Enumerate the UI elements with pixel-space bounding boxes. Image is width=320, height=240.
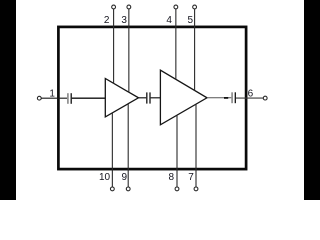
pin 7 stem wire [195, 104, 197, 187]
wire C3 to pin 6 [236, 97, 263, 99]
capacitor C1 left plate [67, 93, 69, 104]
amplifier A1 [105, 79, 138, 117]
pin 5 terminal circle [193, 5, 197, 9]
pin 8 terminal circle [175, 187, 179, 191]
svg-text:7: 7 [188, 172, 194, 183]
pin 10 stem wire [111, 113, 113, 187]
pin 4 terminal circle [174, 5, 178, 9]
capacitor C2 right plate [149, 92, 151, 103]
pin 4 stem wire [175, 9, 177, 80]
pin 2 stem wire [113, 9, 115, 84]
svg-text:9: 9 [122, 172, 128, 183]
wire A2 apex to C3 [207, 97, 231, 99]
pin 9 stem wire [127, 104, 129, 187]
svg-text:6: 6 [248, 89, 254, 100]
capacitor C3 right plate [234, 92, 236, 103]
pin 7 terminal circle [194, 187, 198, 191]
pin 3 terminal circle [127, 5, 131, 9]
svg-text:3: 3 [121, 15, 127, 26]
capacitor C1 right plate [70, 93, 72, 104]
pin 10 terminal circle [110, 187, 114, 191]
amplifier A2 [160, 70, 207, 125]
pin 1 terminal circle [37, 96, 41, 100]
left black sidebar [0, 0, 16, 200]
pin 9 terminal circle [126, 187, 130, 191]
pin 8 stem wire [176, 115, 178, 187]
polarity dash on wire before C3 [224, 97, 228, 99]
svg-text:2: 2 [104, 15, 110, 26]
capacitor C2 left plate [146, 92, 148, 103]
pin 6 terminal circle [263, 96, 267, 100]
IC package outline U1 [58, 27, 246, 169]
svg-text:4: 4 [166, 15, 172, 26]
svg-text:10: 10 [99, 172, 111, 183]
wire A1 apex to C2 [139, 97, 147, 99]
right black sidebar [304, 0, 320, 200]
pin 3 stem wire [128, 9, 130, 92]
wire C2 to amplifier A2 [151, 97, 161, 99]
wire C1 to amplifier A1 [72, 97, 105, 99]
svg-text:5: 5 [188, 15, 194, 26]
wire pin1 to C1 [41, 97, 67, 99]
pin 2 terminal circle [112, 5, 116, 9]
capacitor C3 left plate [231, 92, 233, 103]
svg-text:8: 8 [169, 172, 175, 183]
pin 5 stem wire [194, 9, 196, 91]
